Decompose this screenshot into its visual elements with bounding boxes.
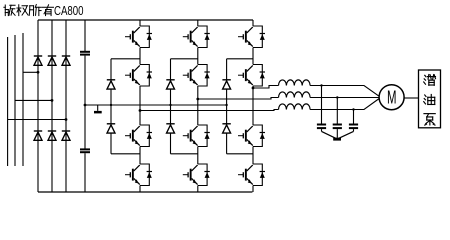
wire cap branch 1 <box>321 86 323 124</box>
wire phase tap C <box>8 119 66 121</box>
title text 版权所有 (copyright notice, drawn glyphs) <box>4 5 54 16</box>
wire W leg top <box>252 20 254 26</box>
junction clamp-midbus U <box>110 104 112 106</box>
node W output junction <box>252 87 255 90</box>
wire node A V <box>171 58 198 60</box>
wire V mid section <box>197 86 199 125</box>
diode D1 <box>34 56 42 65</box>
filter capacitor C5 <box>349 125 358 129</box>
wire star diagonal right <box>339 131 354 138</box>
wire output W (leg3 to filter) <box>253 86 279 89</box>
wire U leg bottom <box>139 186 141 193</box>
wire clamp column W lower <box>226 133 228 154</box>
wire node A W <box>227 58 253 60</box>
phase input line L3 (wire) <box>22 33 24 166</box>
dc-link capacitor C2 <box>80 149 90 152</box>
wire V T3-T4 <box>197 147 199 165</box>
IGBT Q4 (bottom) with antiparallel diode <box>125 164 152 186</box>
junction cap branch 2 <box>336 96 338 98</box>
motor M1 circle <box>379 85 404 110</box>
clamp diode D8 <box>107 124 115 133</box>
wire node B W <box>227 153 253 155</box>
wire clamp column U lower <box>110 133 112 154</box>
phase input line L2 (wire) <box>14 35 16 166</box>
diode D5 <box>48 131 56 140</box>
diode D3 <box>62 56 70 65</box>
IGBT Q6 with antiparallel diode <box>183 65 210 87</box>
wire L6 to motor <box>310 99 379 110</box>
wire phase tap B <box>15 99 52 101</box>
phase input line L1 (wire) <box>7 37 9 166</box>
IGBT Q3 with antiparallel diode <box>125 125 152 147</box>
wire W T1-T2 <box>252 48 254 65</box>
junction cap branch 1 <box>320 84 322 86</box>
wire node A U <box>111 58 140 60</box>
wire clamp column V lower <box>170 133 172 154</box>
junction cap branch 3 <box>352 108 354 110</box>
wire V leg bottom <box>197 186 199 193</box>
midpoint bus wire <box>85 104 227 106</box>
IGBT Q2 with antiparallel diode <box>125 65 152 87</box>
wire cap branch 3 <box>353 110 355 124</box>
wire node B U <box>111 153 140 155</box>
star point bar <box>333 138 341 141</box>
dc-link column wire lower <box>84 153 86 192</box>
wire V leg top <box>197 20 199 26</box>
IGBT Q1 (top) with antiparallel diode <box>125 26 152 48</box>
rectifier leg 1 wire <box>37 20 39 192</box>
node V output junction <box>196 98 199 101</box>
wire cap branch 2 <box>336 98 338 124</box>
wire W mid section <box>252 86 254 125</box>
wire U T1-T2 <box>139 48 141 65</box>
DC+ bus (top rail) <box>38 19 253 21</box>
diode D2 <box>48 56 56 65</box>
junction midpoint at C1/C2 <box>84 104 87 107</box>
wire output U (leg1 to filter) <box>140 110 279 111</box>
dc-link column wire middle <box>84 56 86 149</box>
svg-text:CA800: CA800 <box>54 4 84 18</box>
junction clamp-midbus V <box>169 104 171 106</box>
junction phase A <box>37 71 40 74</box>
wire C5 stub <box>353 129 355 131</box>
midpoint marker bar <box>94 111 102 114</box>
clamp diode D7 <box>107 80 115 89</box>
DC- bus (bottom rail) <box>38 191 252 193</box>
wire clamp column V middle <box>170 89 172 124</box>
wire clamp column W upper <box>226 59 228 80</box>
dc-link capacitor C1 <box>80 52 90 55</box>
clamp diode D9 <box>166 80 174 89</box>
filter capacitor C4 <box>333 125 342 129</box>
wire clamp column V upper <box>170 59 172 80</box>
IGBT Q12 (bottom) with antiparallel diode <box>238 164 265 186</box>
diode D4 <box>34 131 42 140</box>
IGBT Q8 (bottom) with antiparallel diode <box>183 164 210 186</box>
inductor L5 <box>279 92 311 98</box>
rectifier leg 2 wire <box>51 20 53 192</box>
wire clamp column W middle <box>226 89 228 124</box>
rectifier leg 3 wire <box>65 20 67 192</box>
wire output V (leg2 to filter) <box>198 98 279 100</box>
IGBT Q5 (top) with antiparallel diode <box>183 26 210 48</box>
wire clamp column U upper <box>110 59 112 80</box>
IGBT Q9 (top) with antiparallel diode <box>238 26 265 48</box>
wire U T3-T4 <box>139 147 141 165</box>
wire node B V <box>171 153 198 155</box>
wire motor to load box <box>404 97 418 99</box>
junction clamp-midbus W <box>225 104 227 106</box>
wire clamp column U middle <box>110 89 112 124</box>
wire U mid section <box>139 86 141 125</box>
IGBT Q10 with antiparallel diode <box>238 65 265 87</box>
IGBT Q7 with antiparallel diode <box>183 125 210 147</box>
wire C3 stub <box>321 129 323 131</box>
dc-link column wire upper <box>84 20 86 51</box>
svg-text:M: M <box>387 88 397 108</box>
load label 潜 <box>424 75 436 86</box>
wire L4 to motor <box>310 86 379 97</box>
inductor L4 <box>279 80 311 86</box>
midpoint stub wire <box>97 105 99 111</box>
inductor L6 <box>279 104 311 110</box>
junction phase C <box>65 118 68 121</box>
clamp diode D11 <box>222 80 230 89</box>
wire C4 stub <box>336 129 338 138</box>
wire V T1-T2 <box>197 48 199 65</box>
wire U leg top <box>139 20 141 26</box>
wire L5 to motor <box>310 97 379 99</box>
node U output junction <box>139 109 142 112</box>
load label 油 <box>424 94 435 104</box>
clamp diode D10 <box>166 124 174 133</box>
clamp diode D12 <box>222 124 230 133</box>
filter capacitor C3 <box>317 125 326 129</box>
junction phase B <box>51 99 54 102</box>
load box outline <box>419 70 441 128</box>
IGBT Q11 with antiparallel diode <box>238 125 265 147</box>
wire W T3-T4 <box>252 147 254 165</box>
diode D6 <box>62 131 70 140</box>
load label 泵 <box>424 114 435 126</box>
wire W leg bottom <box>252 186 254 193</box>
wire phase tap A <box>23 71 38 73</box>
wire star diagonal left <box>322 131 336 138</box>
